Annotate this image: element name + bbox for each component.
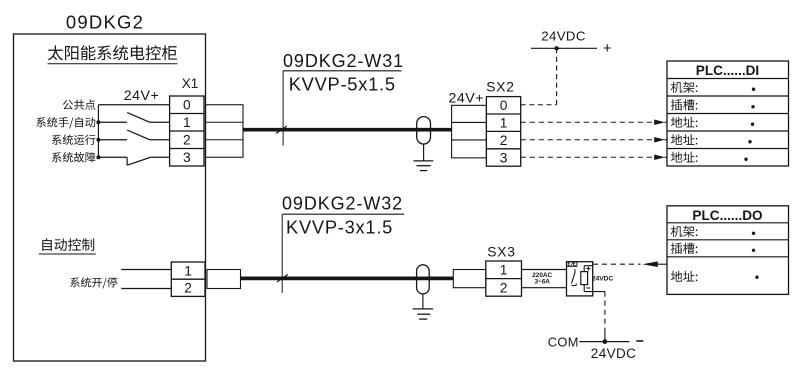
wire row3 right	[150, 156, 170, 158]
svg-text:3~6A: 3~6A	[534, 279, 550, 286]
terminal block bottom (cabinet)	[171, 262, 205, 296]
relay contact	[574, 269, 576, 271]
svg-text:24V+: 24V+	[124, 88, 160, 104]
cable W32 over shield	[416, 277, 430, 281]
svg-text:2: 2	[183, 133, 191, 148]
dashed wire SX2 row3 to PLC	[521, 156, 654, 158]
switch contact row3	[126, 157, 128, 165]
junction node row1	[96, 120, 100, 124]
wire row3 left	[98, 156, 127, 158]
svg-text:1: 1	[500, 263, 508, 278]
svg-text:24VDC: 24VDC	[541, 28, 586, 43]
wire SX3 row2 to relay	[522, 287, 567, 289]
label xitongkai/ting	[70, 277, 117, 288]
value dot	[752, 88, 755, 91]
wire row1 left	[98, 121, 127, 123]
plus mark	[586, 268, 590, 270]
minus sign	[636, 340, 643, 342]
value dot	[751, 105, 754, 108]
junction node row3	[96, 155, 100, 159]
wire bottom row1	[121, 269, 171, 271]
PLC DI box	[667, 61, 789, 166]
value dot	[748, 140, 751, 143]
svg-text:1: 1	[500, 116, 508, 131]
svg-text:0: 0	[500, 98, 508, 113]
cable W31	[243, 128, 452, 132]
terminal block SX3	[486, 261, 522, 296]
svg-text:2: 2	[500, 133, 508, 148]
junction node row2	[96, 138, 100, 142]
minus mark	[586, 287, 590, 289]
cable W31 over shield	[416, 128, 431, 132]
svg-text:SX3: SX3	[487, 244, 515, 259]
label rule W31	[283, 70, 401, 72]
cable gland left W31	[206, 105, 244, 158]
svg-text:1: 1	[184, 264, 192, 279]
svg-text:+: +	[603, 40, 612, 57]
wire SX3 row1 to relay	[522, 269, 567, 271]
svg-text:3: 3	[183, 150, 191, 165]
value dot	[751, 123, 754, 126]
coil bottom wire	[583, 285, 585, 292]
node on supply line	[554, 46, 558, 50]
underline auto control	[39, 253, 96, 255]
svg-text:09DKG2-W32: 09DKG2-W32	[282, 193, 403, 213]
value dot	[755, 276, 758, 279]
arrow head row1	[654, 120, 665, 125]
svg-text:SX2: SX2	[486, 80, 514, 95]
wire row2 left	[98, 139, 127, 141]
relay box E/E	[567, 262, 593, 296]
svg-text:24VDC: 24VDC	[592, 275, 613, 282]
svg-text:0: 0	[183, 98, 191, 113]
ground symbol W31	[414, 161, 434, 171]
cable gland left W32	[207, 270, 241, 289]
wire row0	[98, 104, 169, 106]
dashed wire relay to COM	[604, 292, 606, 329]
PLC DO box	[667, 206, 789, 295]
title underline	[48, 63, 178, 65]
svg-text:24VDC: 24VDC	[591, 346, 637, 361]
dashed wire PLC DO to relay	[593, 263, 641, 265]
svg-text:2: 2	[500, 280, 508, 295]
label zidongkongzhi (auto control)	[42, 238, 94, 251]
ground symbol W32	[413, 309, 433, 319]
cable shield symbol W31	[417, 117, 431, 144]
terminal block X1	[170, 96, 204, 166]
terminal block SX2	[486, 97, 520, 167]
value dot	[744, 158, 747, 161]
switch contact row1	[127, 113, 150, 123]
svg-text:PLC......DO: PLC......DO	[692, 208, 762, 223]
wire row1 right	[150, 121, 170, 123]
cable gland right W32	[453, 270, 486, 288]
cable gland right W31	[452, 105, 487, 158]
svg-text:X1: X1	[182, 76, 199, 91]
cable W32	[241, 277, 454, 281]
svg-text:3: 3	[500, 150, 508, 165]
node COM	[603, 339, 608, 344]
value dot	[752, 232, 755, 235]
leader W32	[281, 214, 283, 293]
svg-text:09DKG2-W31: 09DKG2-W31	[283, 51, 404, 71]
svg-text:24V+: 24V+	[449, 90, 485, 106]
value dot	[752, 249, 755, 252]
dashed wire SX2 row2 to PLC	[521, 139, 654, 141]
svg-text:KVVP-5x1.5: KVVP-5x1.5	[289, 74, 396, 95]
E/E corner label	[567, 262, 577, 267]
wire row2 right	[150, 139, 170, 141]
arrow head DO (points left)	[642, 261, 658, 267]
shield capsule W32	[417, 265, 430, 294]
svg-text:KVVP-3x1.5: KVVP-3x1.5	[286, 217, 393, 238]
cabinet 09DKG2 box	[14, 34, 206, 361]
leader W31	[282, 71, 284, 146]
dashed wire SX2 row1 to PLC	[521, 121, 654, 123]
relay coil	[581, 272, 588, 285]
svg-text:09DKG2: 09DKG2	[66, 12, 144, 33]
24VDC supply line	[531, 47, 597, 49]
arrow head row2	[654, 137, 665, 142]
svg-text:PLC......DI: PLC......DI	[696, 63, 759, 78]
dashed wire supply to SX2 row0	[556, 48, 558, 104]
COM wire	[579, 341, 629, 343]
wire bottom row2	[121, 288, 171, 290]
switch contact row2	[127, 130, 150, 140]
label rule W32	[282, 213, 404, 215]
coil top wire	[583, 266, 585, 272]
svg-text:2: 2	[184, 281, 192, 296]
svg-text:1: 1	[183, 115, 191, 130]
arrow head row3	[654, 155, 665, 160]
svg-text:COM: COM	[548, 335, 579, 350]
left bus wire	[97, 105, 99, 158]
